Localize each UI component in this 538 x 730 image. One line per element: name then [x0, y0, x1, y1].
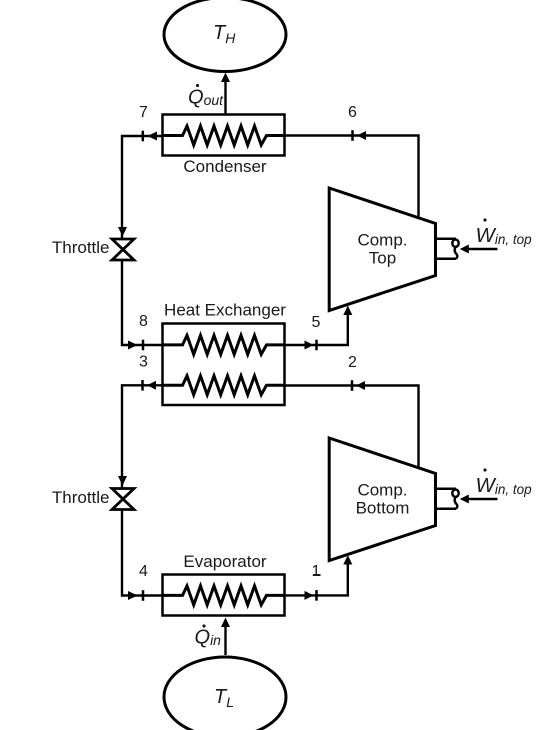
Q_in arrow wire	[224, 624, 226, 655]
Q_out arrowhead	[221, 73, 230, 83]
svg-text:3: 3	[139, 354, 148, 371]
Q dot	[196, 84, 199, 87]
svg-text:Throttle: Throttle	[52, 238, 110, 257]
tick 2	[351, 380, 354, 391]
svg-text:4: 4	[139, 563, 148, 580]
svg-text:6: 6	[348, 104, 357, 121]
compressor top trapezoid	[329, 188, 435, 311]
arrowhead 3 (left)	[147, 381, 156, 390]
arrowhead 6 (left)	[357, 131, 366, 140]
wire 4: throttle to evaporator	[122, 510, 162, 596]
tick 8	[142, 340, 145, 351]
tick 6	[351, 130, 354, 141]
svg-text:7: 7	[139, 104, 148, 121]
wire 6: comp top to condenser	[284, 136, 419, 217]
evaporator box	[163, 575, 285, 616]
W_in,top arrow (top)	[467, 248, 498, 250]
svg-text:Bottom: Bottom	[356, 499, 410, 518]
W_in,top arrow (bottom)	[467, 498, 498, 500]
wire 5: heat exchanger to comp top	[284, 308, 348, 345]
heat exchanger coil lower	[163, 376, 285, 395]
wire 3: heat exchanger to bottom throttle	[122, 385, 162, 488]
throttle valve bottom	[112, 489, 134, 510]
svg-text:5: 5	[312, 314, 321, 331]
arrowhead 7 (left)	[148, 132, 158, 141]
tick 1	[315, 590, 318, 601]
svg-text:Throttle: Throttle	[52, 488, 110, 507]
svg-text:Heat Exchanger: Heat Exchanger	[164, 301, 286, 320]
shaft coupling bottom	[436, 489, 459, 509]
svg-text:1: 1	[312, 563, 321, 580]
svg-text:Win, top: Win, top	[476, 224, 533, 247]
W dot (top)	[483, 218, 486, 221]
arrowhead 1 horizontal (right)	[305, 591, 314, 600]
tick 4	[142, 590, 145, 601]
tick 3	[141, 380, 144, 391]
tick 5	[315, 340, 318, 351]
arrowhead 4 (right)	[128, 591, 138, 600]
svg-text:2: 2	[348, 354, 357, 371]
svg-text:Top: Top	[369, 249, 396, 268]
svg-text:Comp.: Comp.	[357, 481, 407, 500]
Q_in dot	[202, 624, 205, 627]
shaft coupling top	[436, 239, 459, 259]
wire 1: evaporator to comp bottom	[284, 558, 348, 595]
arrowhead into top throttle	[118, 227, 127, 237]
Q_in arrowhead	[221, 618, 230, 628]
heat exchanger coil upper	[163, 335, 285, 354]
svg-text:Condenser: Condenser	[183, 157, 267, 176]
condenser coil	[163, 126, 285, 145]
arrowhead 8 (right)	[128, 341, 138, 350]
arrowhead 1 up into comp bottom	[343, 555, 352, 565]
condenser box	[163, 115, 285, 156]
wire 7: condenser to left down-run	[122, 136, 162, 239]
reservoir T_L ellipse	[164, 657, 286, 730]
evaporator coil	[163, 586, 285, 605]
wire 2: comp bottom to heat exchanger	[284, 386, 419, 467]
W dot (bottom)	[483, 468, 486, 471]
arrowhead 5 up into comp top	[343, 306, 352, 316]
tick 7	[142, 131, 145, 142]
Q_out arrow wire	[224, 80, 226, 114]
arrowhead 5 horizontal (right)	[305, 341, 314, 350]
svg-text:Qin: Qin	[195, 627, 222, 649]
svg-text:TL: TL	[214, 686, 234, 710]
throttle valve top	[112, 239, 134, 260]
wire: throttle to heat exchanger (state 8)	[122, 260, 162, 345]
svg-text:Comp.: Comp.	[357, 231, 407, 250]
arrowhead 2 (left)	[356, 381, 365, 390]
svg-text:Win, top: Win, top	[476, 474, 533, 497]
svg-text:Qout: Qout	[188, 87, 224, 109]
svg-text:Evaporator: Evaporator	[183, 552, 266, 571]
reservoir T_H ellipse	[164, 0, 286, 72]
svg-text:8: 8	[139, 313, 148, 330]
heat exchanger box	[163, 324, 285, 406]
compressor bottom trapezoid	[329, 438, 435, 561]
svg-text:TH: TH	[213, 22, 236, 46]
arrowhead into bottom throttle	[118, 476, 127, 486]
